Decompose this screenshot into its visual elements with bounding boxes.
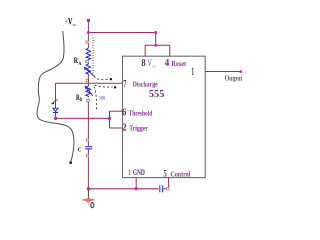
wire: output bbox=[205, 71, 240, 73]
wire out of cap bbox=[87, 149, 89, 154]
svg-text:1: 1 bbox=[191, 66, 194, 78]
svg-text:Reset: Reset bbox=[171, 60, 186, 68]
drag hint dashed curve upper bbox=[94, 76, 108, 80]
svg-text:Control: Control bbox=[171, 171, 191, 178]
diode D cathode bar bbox=[53, 112, 58, 114]
annotation brace arrow tip bbox=[69, 161, 72, 164]
resistor RA adjust arrow bbox=[85, 68, 94, 76]
wire RA to RB through pin7 node bbox=[87, 75, 89, 85]
drag hint dot upper bbox=[110, 78, 112, 80]
diode D stub to node bbox=[55, 113, 57, 119]
wire control cap to handle bbox=[163, 188, 166, 190]
wire: node line y=118.4 to pins 6/2 connector bbox=[56, 117, 110, 119]
junction dot at (109.5,118.4) bbox=[108, 117, 111, 120]
ground symbol stem bbox=[87, 189, 89, 200]
svg-text:Threshold: Threshold bbox=[129, 110, 153, 118]
resistor RA terminal handle top bbox=[86, 41, 88, 43]
wire: ground rail bbox=[88, 188, 158, 190]
wire: GND pin vertical bbox=[135, 178, 137, 189]
capacitor C handle top bbox=[86, 139, 88, 141]
node dot below diode bbox=[54, 117, 57, 120]
svg-text:555: 555 bbox=[149, 88, 165, 100]
svg-text:Output: Output bbox=[225, 74, 243, 83]
wire: pin 2 stub bbox=[110, 127, 123, 129]
label 0 bbox=[91, 203, 94, 208]
capacitor C plates bbox=[85, 146, 92, 148]
wire: pin 5 vertical bbox=[168, 178, 170, 188]
svg-text:cc: cc bbox=[152, 64, 156, 69]
junction dot GND pin bbox=[135, 187, 138, 190]
resistor RA fixed zigzag bbox=[87, 43, 89, 48]
capacitor C handle bottom bbox=[86, 155, 88, 157]
drag hint dot lower bbox=[114, 86, 116, 88]
wire: hat over pins 8 and 4 bbox=[145, 45, 170, 56]
wire: pin7 horizontal bbox=[56, 82, 123, 84]
resistor RA variable zigzag bbox=[86, 63, 91, 75]
svg-text:7: 7 bbox=[123, 79, 126, 90]
resistor RA wiper circle bbox=[86, 60, 89, 63]
svg-text:100: 100 bbox=[99, 96, 105, 101]
wire: top horizontal feed to hat bbox=[88, 32, 155, 34]
svg-text:Trigger: Trigger bbox=[129, 125, 148, 133]
wire: pin 6 stub bbox=[110, 110, 123, 112]
ground symbol inner triangle bbox=[86, 200, 91, 203]
wire cap to ground junction bbox=[87, 157, 89, 189]
slider scale ticks for RA bbox=[92, 38, 94, 75]
junction dot ground left bbox=[87, 187, 90, 190]
svg-text:2: 2 bbox=[122, 123, 126, 134]
svg-text:4: 4 bbox=[165, 58, 170, 69]
terminal dot +Vcc bbox=[87, 19, 90, 22]
annotation brace curve bbox=[37, 31, 74, 161]
diode D triangle bbox=[53, 108, 58, 111]
resistor RA terminal handle bottom bbox=[86, 79, 89, 82]
junction dot at (155.7,32.5) bbox=[154, 31, 157, 34]
svg-text:C: C bbox=[78, 147, 82, 154]
wire into cap bbox=[87, 141, 89, 146]
wire RB down to cap bbox=[87, 102, 89, 139]
resistor RB zigzag bbox=[86, 85, 91, 98]
555 IC body U1 bbox=[123, 56, 206, 177]
wire: pins 6/2 connector vertical bbox=[109, 111, 111, 128]
control terminal handle bbox=[166, 187, 169, 190]
wire: feed vertical into hat bbox=[155, 33, 157, 46]
svg-text:1: 1 bbox=[128, 167, 130, 177]
resistor RB bottom circle bbox=[87, 99, 90, 102]
ground symbol tail bbox=[87, 203, 89, 204]
svg-text:GND: GND bbox=[133, 168, 145, 177]
drag hint dashed arc descending bbox=[94, 87, 97, 111]
svg-text:8: 8 bbox=[141, 58, 145, 69]
ground symbol 0 arrow bbox=[82, 198, 95, 201]
junction dot at (88,32.5) bbox=[87, 31, 90, 34]
diode D vertical wire from pin7 line bbox=[55, 83, 57, 108]
svg-text:5: 5 bbox=[164, 169, 168, 179]
svg-text:cc: cc bbox=[73, 22, 77, 27]
drag hint dashed curve lower bbox=[95, 85, 113, 87]
svg-text:6: 6 bbox=[122, 108, 126, 119]
resistor RB adjust arrow bbox=[86, 87, 93, 95]
junction dot at (155.7,45.2) bbox=[154, 44, 157, 47]
svg-text:ra: ra bbox=[52, 121, 55, 125]
output terminal dot bbox=[240, 70, 242, 72]
control capacitor plates bbox=[159, 185, 161, 192]
diode D tiny annotation mark bbox=[53, 99, 58, 103]
wire: +Vcc top vertical bbox=[87, 20, 89, 41]
